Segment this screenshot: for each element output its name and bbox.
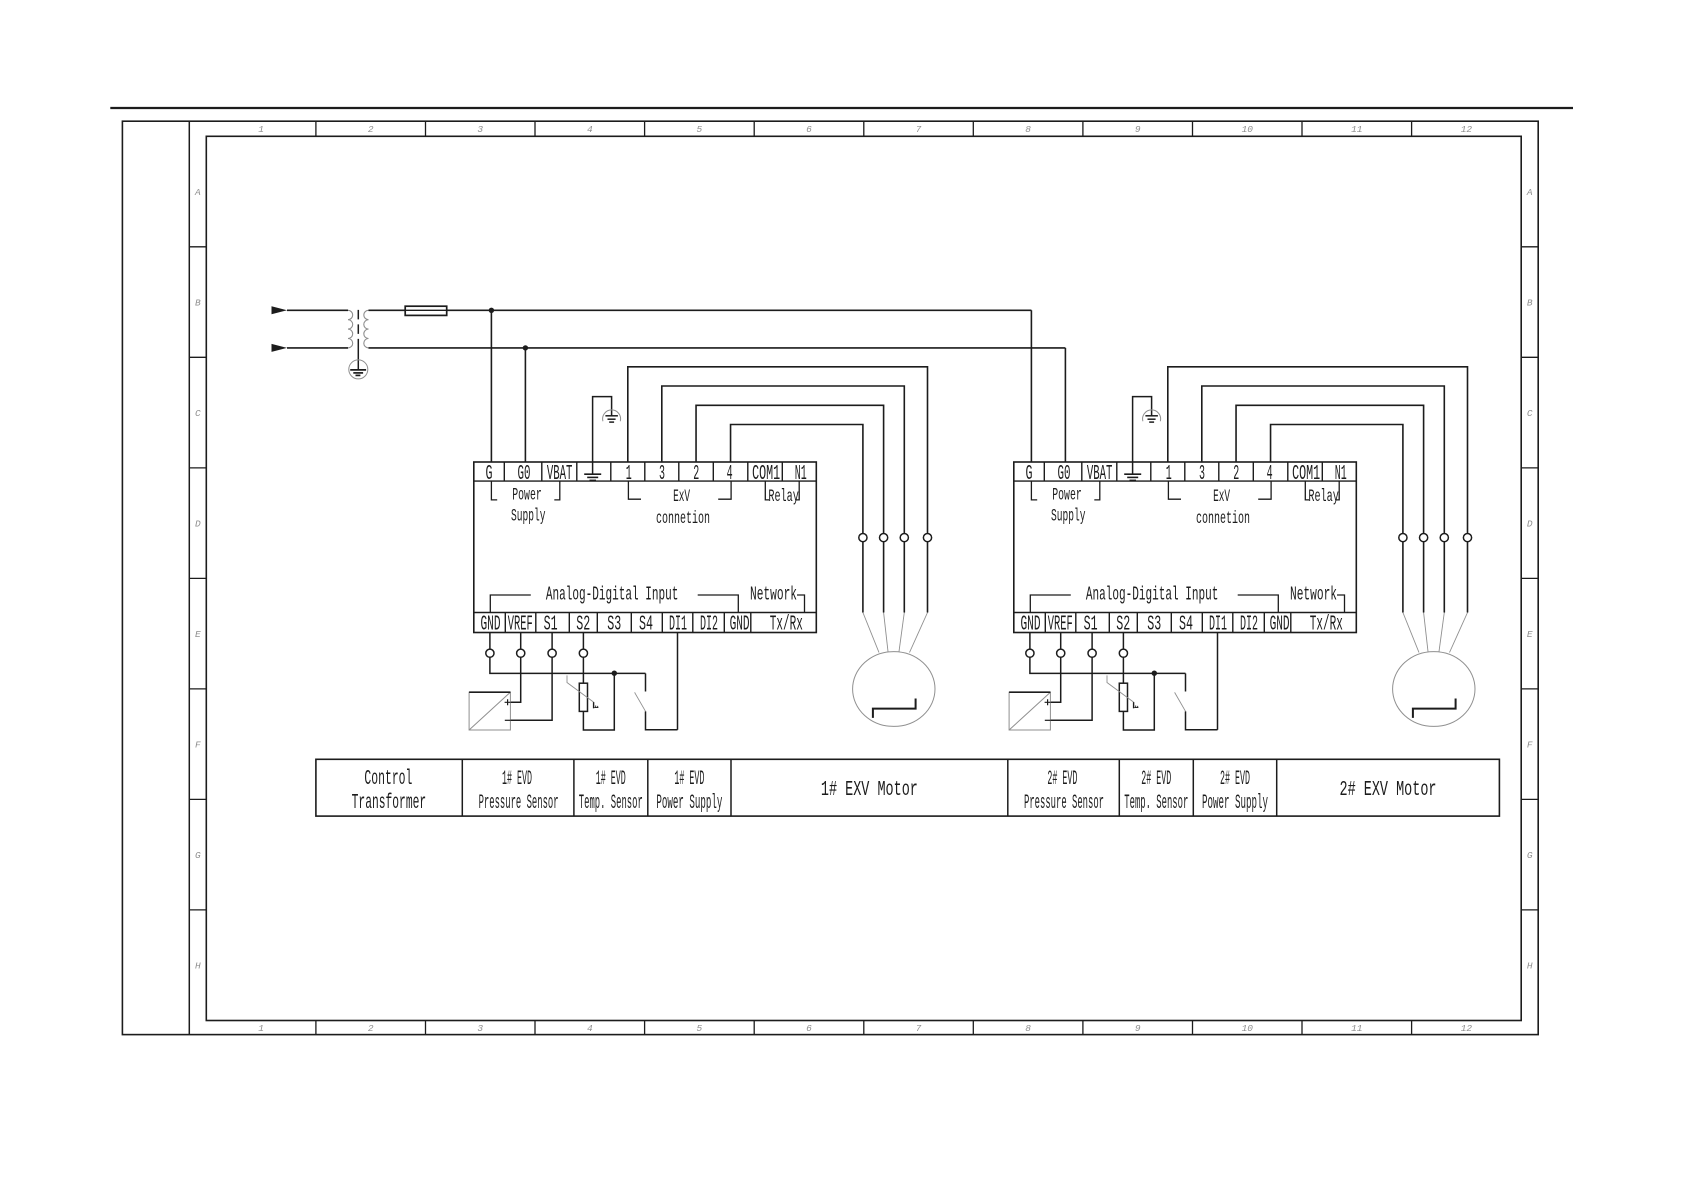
- svg-text:ExV: ExV: [673, 487, 690, 507]
- svg-text:G: G: [1527, 850, 1533, 861]
- 1# EXV wire connector circle: [923, 534, 931, 542]
- 2# EXV wire connector circle: [1440, 534, 1448, 542]
- 1# GND sensor wire with connector: [489, 633, 491, 650]
- 1# EVD bottom terminal labels GND VREF S1 S2 S3 S4 DI1 DI2 GND Tx/Rx: [481, 613, 803, 637]
- svg-text:12: 12: [1461, 1023, 1473, 1034]
- svg-text:G0: G0: [1058, 462, 1071, 486]
- svg-text:N1: N1: [1335, 462, 1347, 486]
- 2# EVD functional-earth terminal symbol: [1132, 462, 1134, 474]
- 1# EVD functional-earth terminal symbol: [592, 462, 594, 474]
- 1# DI1 switch fixed contact: [645, 673, 647, 691]
- svg-text:Power: Power: [1052, 485, 1082, 505]
- wire N to transformer: [287, 347, 348, 349]
- svg-text:3: 3: [659, 462, 665, 486]
- 2# EVD Relay bracket under N1: [1335, 481, 1339, 500]
- 2# EVD bottom terminal cell dividers: [1045, 613, 1291, 633]
- 1# EVD Relay bracket under N1: [795, 481, 799, 500]
- svg-text:5: 5: [697, 1023, 703, 1034]
- wire drop to 1# EVD G0: [524, 348, 526, 462]
- wire drop to 2# EVD G: [1030, 310, 1032, 462]
- 2# EXV wire lower segment: [1423, 542, 1425, 613]
- svg-text:H: H: [1527, 961, 1533, 972]
- legend table outline: [316, 759, 1500, 816]
- 2# EXV motor valve step mark: [1413, 699, 1456, 718]
- svg-text:1# EXV Motor: 1# EXV Motor: [821, 778, 918, 802]
- 2# EXV wire terminal x256.75: [1271, 425, 1403, 534]
- 1# temperature sensor thermistor stroke: [567, 675, 594, 702]
- svg-text:1# EVD: 1# EVD: [596, 768, 626, 791]
- 2# EXV wire lead-in to motor: [1403, 613, 1419, 653]
- drawing frame outer border: [122, 121, 1538, 1034]
- 1# EVD ExV bracket under 4: [718, 481, 731, 499]
- 1# EXV wire lead-in to motor: [899, 613, 904, 652]
- row letters left: [194, 187, 201, 972]
- 1# DI1 switch lower wire: [646, 711, 678, 729]
- svg-text:Network: Network: [750, 583, 797, 605]
- fuse F1: [405, 306, 447, 315]
- svg-text:Supply: Supply: [1051, 507, 1086, 527]
- 1# EVD pressure sensor BP1 body: [469, 692, 510, 730]
- svg-text:Temp. Sensor: Temp. Sensor: [1124, 792, 1188, 815]
- svg-text:3: 3: [477, 124, 483, 135]
- 2# pressure sensor diagonal: [1009, 692, 1050, 730]
- svg-text:F: F: [195, 740, 201, 751]
- 1# VREF sensor wire with connector: [520, 633, 522, 650]
- svg-text:2# EXV Motor: 2# EXV Motor: [1340, 778, 1437, 802]
- control transformer T1 secondary coil: [364, 310, 369, 348]
- 2# EVD temperature sensor RT2 body: [1119, 683, 1127, 711]
- 2# EVD controller U2 outline: [1014, 462, 1357, 633]
- svg-text:2# EVD: 2# EVD: [1141, 768, 1171, 791]
- svg-text:GND: GND: [1270, 613, 1290, 637]
- frame row ticks left: [189, 246, 206, 248]
- 1# temperature sensor return wire: [583, 673, 614, 730]
- svg-text:G0: G0: [518, 462, 531, 486]
- svg-text:B: B: [1527, 298, 1533, 309]
- 2# EVD Power Supply bracket under VBAT: [1094, 481, 1100, 500]
- svg-text:H: H: [195, 961, 201, 972]
- 2# EXV motor M2 body: [1393, 652, 1475, 727]
- svg-text:2: 2: [368, 124, 374, 135]
- svg-text:Analog-Digital Input: Analog-Digital Input: [1086, 583, 1219, 605]
- svg-text:10: 10: [1242, 1023, 1254, 1034]
- zone numbers bottom: [258, 1023, 1472, 1034]
- svg-text:N1: N1: [795, 462, 807, 486]
- svg-text:2# EVD: 2# EVD: [1047, 768, 1077, 791]
- svg-text:DI2: DI2: [700, 613, 718, 637]
- transformer core dashed line: [357, 310, 359, 342]
- 2# EXV wire lead-in to motor: [1424, 613, 1428, 652]
- 2# EXV wire terminal x188: [1202, 386, 1445, 533]
- page top rule: [110, 107, 1573, 109]
- svg-text:5: 5: [697, 124, 703, 135]
- 2# EVD Analog-Digital Input line right: [1238, 595, 1279, 613]
- 1# pressure sensor minus mark: [505, 719, 511, 721]
- 2# EVD Relay bracket under COM1: [1305, 481, 1309, 500]
- wire L phase to transformer: [287, 309, 348, 311]
- svg-text:C: C: [1527, 408, 1533, 419]
- svg-text:7: 7: [916, 124, 922, 135]
- svg-text:1: 1: [258, 124, 264, 135]
- 1# EVD bottom terminal cell dividers: [505, 613, 751, 633]
- svg-text:Transformer: Transformer: [352, 791, 427, 815]
- 1# EVD Analog-Digital Input bracket left: [490, 595, 531, 613]
- svg-text:COM1: COM1: [752, 462, 780, 486]
- 2# EVD chassis earth riser: [1133, 397, 1152, 462]
- 1# EVD temperature sensor RT1 body: [579, 683, 587, 711]
- supply input arrow L: [272, 306, 288, 314]
- protective earth circle at transformer: [349, 360, 368, 379]
- svg-text:S3: S3: [607, 613, 621, 637]
- svg-text:2# EVD: 2# EVD: [1220, 768, 1250, 791]
- 1# thermistor foot: [593, 702, 595, 708]
- svg-text:1: 1: [258, 1023, 264, 1034]
- svg-text:1# EVD: 1# EVD: [674, 768, 704, 791]
- 2# pressure sensor minus mark: [1045, 719, 1051, 721]
- 2# EXV wire lower segment: [1443, 542, 1445, 613]
- 2# EXV wire lead-in to motor: [1450, 613, 1468, 653]
- 1# EVD chassis earth bars: [605, 415, 618, 417]
- svg-text:Supply: Supply: [511, 507, 546, 527]
- 2# EVD ExV bracket under 4: [1258, 481, 1271, 499]
- svg-text:A: A: [194, 187, 201, 198]
- wire N rail: transformer to 2# EVD G0 drop: [369, 347, 1066, 349]
- svg-text:2: 2: [368, 1023, 374, 1034]
- 2# EXV wire connector circle: [1420, 534, 1428, 542]
- svg-text:8: 8: [1025, 124, 1031, 135]
- svg-text:F: F: [1527, 740, 1533, 751]
- svg-text:S1: S1: [1084, 613, 1098, 637]
- 2# EVD Network bracket right: [1337, 595, 1345, 613]
- 1# EXV wire terminal x188: [662, 386, 905, 533]
- svg-text:2: 2: [1233, 462, 1239, 486]
- 2# EXV wire lower segment: [1467, 542, 1469, 613]
- svg-text:9: 9: [1135, 124, 1141, 135]
- svg-text:E: E: [195, 629, 201, 640]
- 1# DI1 switch blade: [635, 692, 646, 711]
- svg-text:3: 3: [1199, 462, 1205, 486]
- 1# EVD Power Supply bracket under VBAT: [554, 481, 560, 500]
- 1# EXV wire terminal x256.75: [731, 425, 863, 534]
- legend table column dividers: [462, 759, 1276, 816]
- svg-text:S1: S1: [544, 613, 558, 637]
- svg-text:10: 10: [1242, 124, 1254, 135]
- svg-text:C: C: [195, 408, 201, 419]
- supply input arrow N: [272, 344, 288, 352]
- svg-text:4: 4: [587, 1023, 593, 1034]
- 2# EVD Analog-Digital Input bracket left: [1030, 595, 1071, 613]
- svg-text:E: E: [1527, 629, 1533, 640]
- svg-text:7: 7: [916, 1023, 922, 1034]
- svg-text:Tx/Rx: Tx/Rx: [770, 613, 803, 637]
- 1# pressure sensor top edge: [469, 691, 510, 693]
- svg-text:B: B: [195, 298, 201, 309]
- 2# S2 sensor wire with connector: [1122, 633, 1124, 650]
- 1# EXV wire terminal x222.25: [696, 405, 884, 533]
- wire drop to 1# EVD G: [490, 310, 492, 462]
- svg-text:Relay: Relay: [768, 487, 799, 507]
- svg-text:3: 3: [477, 1023, 483, 1034]
- svg-text:11: 11: [1351, 124, 1362, 135]
- junction node N rail / 1# G0: [523, 345, 528, 350]
- 1# EXV motor valve step mark: [873, 699, 916, 718]
- 2# S1 sensor wire with connector: [1091, 633, 1093, 650]
- svg-text:Power: Power: [512, 485, 542, 505]
- 1# EXV wire connector circle: [880, 534, 888, 542]
- 1# pressure sensor diagonal: [469, 692, 510, 730]
- 2# EVD bottom terminal labels GND VREF S1 S2 S3 S4 DI1 DI2 GND Tx/Rx: [1021, 613, 1343, 637]
- 1# EVD top terminal cell dividers: [504, 462, 782, 481]
- svg-text:Temp. Sensor: Temp. Sensor: [579, 792, 643, 815]
- svg-text:connetion: connetion: [656, 509, 710, 529]
- svg-text:ExV: ExV: [1213, 487, 1230, 507]
- svg-text:Tx/Rx: Tx/Rx: [1310, 613, 1343, 637]
- 2# EVD chassis earth bars: [1145, 415, 1158, 417]
- control transformer T1 primary coil: [348, 310, 353, 348]
- 2# temperature sensor return wire: [1123, 673, 1154, 730]
- 2# pressure sensor top edge: [1009, 691, 1050, 693]
- 2# DI1 switch fixed contact: [1185, 673, 1187, 691]
- 2# DI1 switch lower wire: [1186, 711, 1218, 729]
- wire L rail: transformer to fuse: [369, 309, 406, 311]
- 2# thermistor foot: [1133, 702, 1135, 708]
- 1# EVD chassis earth symbol arc: [603, 410, 621, 421]
- 2# VREF sensor wire with connector: [1060, 633, 1062, 650]
- 1# EVD Power Supply bracket under G: [491, 481, 497, 500]
- earth bars at transformer: [350, 369, 366, 371]
- 1# EVD Analog-Digital Input line right: [698, 595, 739, 613]
- 1# EXV wire lead-in to motor: [884, 613, 888, 652]
- 1# junction S2-return / GND line: [612, 671, 617, 676]
- svg-text:Network: Network: [1290, 583, 1337, 605]
- 1# EVD Relay bracket under COM1: [765, 481, 769, 500]
- 2# EVD top terminal labels G G0 VBAT 1 3 2 4 COM1 N1: [1026, 462, 1347, 486]
- frame inner border: [206, 136, 1521, 1020]
- 1# thermistor t-degree mark: [594, 706, 598, 708]
- 2# temperature sensor thermistor stroke: [1107, 675, 1134, 702]
- svg-text:9: 9: [1135, 1023, 1141, 1034]
- wire drop to 2# EVD G0: [1064, 348, 1066, 462]
- 2# thermistor t-degree mark: [1134, 706, 1138, 708]
- svg-text:GND: GND: [730, 613, 750, 637]
- 2# EXV wire lower segment: [1402, 542, 1404, 613]
- svg-text:8: 8: [1025, 1023, 1031, 1034]
- 1# EVD chassis earth riser: [593, 397, 612, 462]
- 1# EVD Network bracket right: [797, 595, 805, 613]
- svg-text:S4: S4: [1179, 613, 1193, 637]
- 1# EXV wire lead-in to motor: [863, 613, 879, 653]
- svg-text:COM1: COM1: [1292, 462, 1320, 486]
- zone numbers top: [258, 124, 1472, 135]
- transformer earth lead: [357, 342, 359, 370]
- 2# EVD ExV bracket under 1: [1168, 481, 1181, 499]
- 2# EXV wire terminal x222.25: [1236, 405, 1424, 533]
- 1# EVD controller U1 outline: [474, 462, 817, 633]
- 2# EXV wire lead-in to motor: [1439, 613, 1444, 652]
- svg-text:D: D: [195, 519, 201, 530]
- 1# S1 sensor wire with connector: [551, 633, 553, 650]
- 1# pressure sensor plus mark: [505, 699, 511, 705]
- svg-text:6: 6: [806, 1023, 812, 1034]
- frame row ticks right: [1521, 246, 1538, 248]
- 1# S2 sensor wire with connector: [582, 633, 584, 650]
- svg-text:DI2: DI2: [1240, 613, 1258, 637]
- svg-text:2: 2: [693, 462, 699, 486]
- svg-text:connetion: connetion: [1196, 509, 1250, 529]
- junction node L rail / 1# G: [489, 308, 494, 313]
- svg-text:11: 11: [1351, 1023, 1362, 1034]
- 2# EXV wire connector circle: [1463, 534, 1471, 542]
- svg-text:Power Supply: Power Supply: [1202, 792, 1268, 815]
- 2# DI1 terminal wire: [1217, 633, 1219, 730]
- 2# GND sensor wire with connector: [1029, 633, 1031, 650]
- 1# EVD top terminal labels G G0 VBAT 1 3 2 4 COM1 N1: [486, 462, 807, 486]
- svg-text:A: A: [1526, 187, 1533, 198]
- svg-text:Analog-Digital Input: Analog-Digital Input: [546, 583, 679, 605]
- 2# EXV wire terminal x154: [1168, 367, 1468, 534]
- 2# EVD Power Supply bracket under G: [1031, 481, 1037, 500]
- 2# EVD pressure sensor BP2 body: [1009, 692, 1050, 730]
- 1# EVD ExV bracket under 1: [628, 481, 641, 499]
- 1# EXV motor M1 body: [853, 652, 935, 727]
- 1# EXV wire lower segment: [903, 542, 905, 613]
- frame zone ticks top: [315, 121, 317, 136]
- 1# EXV wire connector circle: [900, 534, 908, 542]
- svg-text:Relay: Relay: [1308, 487, 1339, 507]
- 2# EVD chassis earth symbol arc: [1143, 410, 1161, 421]
- 1# DI1 terminal wire: [677, 633, 679, 730]
- svg-text:12: 12: [1461, 124, 1473, 135]
- wire L rail: fuse to 2# EVD G drop: [447, 309, 1032, 311]
- svg-text:Pressure Sensor: Pressure Sensor: [479, 792, 559, 815]
- svg-text:S3: S3: [1147, 613, 1161, 637]
- frame zone ticks bottom: [315, 1021, 317, 1035]
- svg-text:Pressure Sensor: Pressure Sensor: [1024, 792, 1104, 815]
- 1# EXV wire lower segment: [927, 542, 929, 613]
- svg-text:6: 6: [806, 124, 812, 135]
- svg-text:Control: Control: [364, 767, 412, 791]
- 2# pressure sensor plus mark: [1045, 699, 1051, 705]
- 1# EXV wire lead-in to motor: [910, 613, 928, 653]
- svg-text:S4: S4: [639, 613, 653, 637]
- 2# EXV wire connector circle: [1399, 534, 1407, 542]
- 2# EVD top terminal cell dividers: [1044, 462, 1322, 481]
- 2# DI1 switch blade: [1175, 692, 1186, 711]
- svg-text:4: 4: [587, 124, 593, 135]
- svg-text:G: G: [195, 850, 201, 861]
- svg-text:1# EVD: 1# EVD: [502, 768, 532, 791]
- 1# EXV wire terminal x154: [628, 367, 928, 534]
- frame left filing column divider: [188, 121, 190, 1034]
- row letters right: [1526, 187, 1533, 972]
- 2# junction S2-return / GND line: [1152, 671, 1157, 676]
- svg-text:Power Supply: Power Supply: [656, 792, 722, 815]
- 1# EXV wire lower segment: [862, 542, 864, 613]
- 1# EXV wire lower segment: [883, 542, 885, 613]
- svg-text:D: D: [1527, 519, 1533, 530]
- 1# EXV wire connector circle: [859, 534, 867, 542]
